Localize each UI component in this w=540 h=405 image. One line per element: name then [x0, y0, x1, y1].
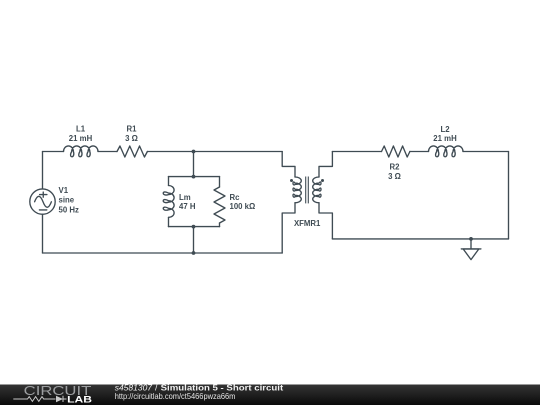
svg-text:21 mH: 21 mH	[433, 134, 457, 143]
svg-text:47 H: 47 H	[179, 202, 196, 211]
svg-text:Rc: Rc	[230, 193, 241, 202]
svg-text:R2: R2	[390, 163, 401, 172]
svg-text:3 Ω: 3 Ω	[125, 134, 138, 143]
svg-text:L2: L2	[440, 125, 450, 134]
svg-text:50 Hz: 50 Hz	[59, 206, 79, 215]
svg-text:L1: L1	[76, 124, 86, 133]
svg-text:100 kΩ: 100 kΩ	[230, 202, 256, 211]
svg-text:XFMR1: XFMR1	[294, 219, 321, 228]
svg-text:LAB: LAB	[67, 395, 92, 405]
svg-text:http://circuitlab.com/ct5466pw: http://circuitlab.com/ct5466pwza66m	[115, 392, 236, 401]
svg-text:V1: V1	[59, 186, 69, 195]
svg-text:R1: R1	[127, 124, 138, 133]
svg-text:sine: sine	[59, 196, 75, 205]
svg-text:21 mH: 21 mH	[69, 134, 93, 143]
svg-text:Lm: Lm	[179, 193, 191, 202]
svg-text:3 Ω: 3 Ω	[388, 172, 401, 181]
